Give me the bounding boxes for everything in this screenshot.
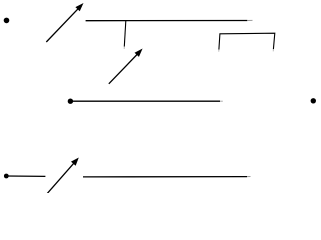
arrow 1 (upper-left, pointing up-right) [46,3,83,42]
wire (middle horizontal line) [70,100,222,102]
wire (bottom-left stub) [6,175,45,177]
arrow 2 (middle, pointing up-right) [109,49,143,84]
bracket (staple shape at top right) [219,33,275,52]
tick (short vertical stroke below top line) [124,21,126,49]
wire (top horizontal line) [86,19,253,21]
node B (middle dot) [68,99,73,104]
wire (bottom horizontal line) [83,176,251,178]
node A (top-left dot) [4,18,10,24]
node D (bottom-left dot) [4,174,9,179]
arrow 3 (bottom, pointing up-right) [47,158,79,195]
node C (right dot) [311,98,316,103]
